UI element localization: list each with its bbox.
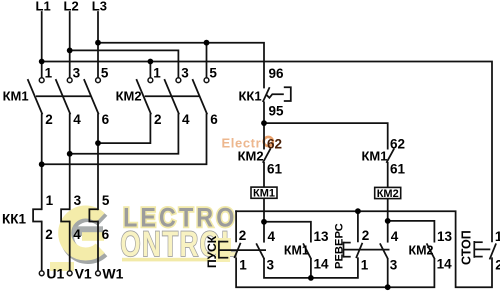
terminal KM1 pin3 — [67, 78, 72, 83]
svg-text:13: 13 — [437, 229, 453, 244]
watermark o-ring glyph — [264, 137, 273, 146]
svg-text:РЕВЕРС: РЕВЕРС — [334, 223, 346, 269]
wire start NC bottom to KM2 return rail — [236, 258, 434, 287]
wire KK1-95 to node and interlock feed — [263, 102, 265, 148]
node control rail at REVERS — [355, 208, 361, 214]
svg-text:W1: W1 — [102, 266, 123, 282]
svg-text:3: 3 — [267, 258, 275, 273]
wire KM2 pin5 stub — [206, 43, 208, 78]
node KM2 pin1 junction — [148, 59, 154, 65]
pushbutton REVERS NC contact 1-2 — [356, 243, 362, 258]
svg-text:14: 14 — [314, 257, 330, 272]
node KM1-4/KM2-4 junction — [67, 151, 73, 157]
svg-text:1: 1 — [361, 258, 369, 273]
terminal KM1 pin5 — [96, 78, 101, 83]
pushbutton REVERS cap and linkage — [344, 242, 390, 258]
wire L1 feed to stop button — [42, 62, 492, 242]
svg-text:КМ1: КМ1 — [3, 89, 29, 104]
aux contact KM1 NO 13-14 — [303, 243, 311, 259]
wire node A to KM1 hold contact — [264, 222, 311, 242]
wire L2 drop — [69, 12, 71, 78]
svg-text:96: 96 — [269, 66, 285, 81]
svg-text:КМ2: КМ2 — [238, 149, 264, 164]
wire L2 feed to KM2 pin3 — [70, 50, 179, 77]
svg-text:2: 2 — [239, 228, 247, 243]
pushbutton PUSK NC contact 1-2 — [234, 243, 240, 258]
svg-text:3: 3 — [390, 258, 398, 273]
terminal KM2 pin5 — [204, 78, 209, 83]
svg-text:4: 4 — [268, 229, 276, 244]
node L1 junction — [39, 59, 45, 65]
wire KM2-NC to KM1 coil — [263, 163, 265, 187]
svg-text:6: 6 — [102, 227, 110, 242]
pushbutton STOP cap and linkage — [474, 241, 490, 258]
svg-text:КМ2: КМ2 — [116, 89, 142, 104]
wire KM1-NC to KM2 coil — [387, 163, 389, 188]
terminal KM1 pin1 — [39, 78, 44, 83]
wire KM2-6 to KM1-2 — [42, 114, 207, 164]
wire L3 feed to KK1-96 — [98, 43, 264, 88]
svg-text:4: 4 — [182, 112, 190, 127]
svg-text:61: 61 — [267, 162, 283, 177]
node KK1-95 junction — [261, 120, 267, 126]
wire KM1 pole outputs down to KK1 — [41, 114, 43, 209]
node C KM2 coil bottom — [385, 218, 391, 224]
svg-text:2: 2 — [154, 112, 162, 127]
pushbutton PUSK cap and linkage — [219, 241, 266, 259]
aux contact KM1 NC 61-62 — [386, 148, 394, 162]
svg-text:2: 2 — [362, 228, 370, 243]
svg-text:V1: V1 — [75, 266, 92, 282]
wire start NC branch top — [235, 211, 237, 241]
terminal KM2 pin3 — [176, 78, 181, 83]
node KM1-6/KM2-2 junction — [95, 140, 101, 146]
wire heater outputs to motor terminals — [41, 222, 43, 272]
svg-text:1: 1 — [45, 66, 53, 81]
wire KM2 pin1 stub — [149, 62, 151, 78]
svg-text:КК1: КК1 — [2, 212, 26, 227]
contactor KM2 main contacts — [136, 79, 151, 114]
svg-text:4: 4 — [73, 227, 81, 242]
svg-text:4: 4 — [73, 112, 81, 127]
svg-text:ПУСК: ПУСК — [205, 235, 219, 268]
terminal W1 — [96, 271, 101, 276]
pushbutton PUSK NO contact 3-4 — [256, 243, 264, 259]
svg-text:13: 13 — [314, 229, 330, 244]
svg-text:5: 5 — [101, 66, 109, 81]
svg-text:6: 6 — [210, 112, 218, 127]
svg-text:14: 14 — [437, 257, 453, 272]
wire L1 drop — [41, 12, 43, 78]
svg-text:1: 1 — [239, 258, 247, 273]
svg-text:2: 2 — [495, 258, 500, 273]
node B rail at KM1-14 — [308, 275, 314, 281]
thermal relay KK1 heater elements — [33, 209, 42, 221]
wire KM2-2 to KM1-6 — [98, 114, 150, 143]
aux contact KM2 NC 61-62 — [263, 148, 271, 162]
svg-text:6: 6 — [102, 112, 110, 127]
svg-text:СТОП: СТОП — [459, 230, 473, 265]
svg-text:2: 2 — [45, 112, 53, 127]
svg-text:L1: L1 — [36, 0, 51, 14]
watermark yellow patch bottom left — [50, 262, 74, 271]
svg-text:КК1: КК1 — [239, 89, 262, 104]
svg-text:62: 62 — [267, 137, 282, 152]
svg-text:L2: L2 — [64, 0, 79, 14]
svg-text:L3: L3 — [92, 0, 107, 14]
svg-text:3: 3 — [74, 193, 82, 208]
coil KM2 — [375, 187, 401, 199]
svg-text:3: 3 — [73, 66, 81, 81]
svg-text:2: 2 — [45, 227, 53, 242]
node D rail at REVERS-3 — [385, 284, 391, 290]
svg-text:КМ2: КМ2 — [409, 244, 434, 258]
contactor KM1 main contacts — [28, 79, 43, 114]
pushbutton STOP NC contact 1-2 — [490, 243, 497, 259]
wire control rail from stop — [236, 211, 492, 287]
svg-text:3: 3 — [181, 66, 189, 81]
wire KM1 coil bottom to start contact — [263, 198, 265, 241]
terminal U1 — [39, 271, 44, 276]
pushbutton REVERS NO contact 3-4 — [380, 243, 388, 259]
node L2 junction — [67, 48, 73, 54]
svg-text:62: 62 — [390, 137, 405, 152]
watermark logo big C — [65, 212, 104, 257]
svg-text:1: 1 — [46, 193, 54, 208]
svg-text:95: 95 — [269, 104, 285, 119]
wire KM1-14 bottom stub — [310, 259, 312, 278]
wire node C to KM2 hold contact — [388, 221, 435, 242]
aux contact KM2 NO 13-14 — [427, 243, 435, 259]
node A KM1 coil bottom — [261, 219, 267, 225]
thermal relay KK1 NC contact with trip linkage — [263, 87, 270, 102]
coil KM1 — [251, 187, 277, 199]
watermark underline — [122, 258, 210, 262]
wire reverse NC branch top — [357, 211, 359, 241]
svg-text:КМ2: КМ2 — [377, 188, 399, 200]
svg-text:КМ1: КМ1 — [362, 149, 388, 164]
wire KM2 coil bottom to reverse contact — [387, 199, 389, 242]
svg-text:5: 5 — [209, 66, 217, 81]
wire reverse NO bottom stub — [387, 259, 389, 287]
wire KM2-4 to KM1-4 — [70, 114, 179, 153]
svg-text:4: 4 — [391, 229, 399, 244]
node KM1-2/KM2-6 junction — [39, 161, 45, 167]
wire KM1 return rail node B — [264, 258, 358, 278]
svg-text:КМ1: КМ1 — [284, 244, 309, 258]
node KM2 pin5 junction — [204, 40, 210, 46]
svg-text:1: 1 — [495, 229, 500, 244]
svg-text:61: 61 — [390, 162, 406, 177]
svg-text:5: 5 — [102, 193, 110, 208]
watermark yellow patch near start button — [214, 238, 231, 252]
svg-text:U1: U1 — [46, 266, 64, 282]
node L3 junction — [95, 40, 101, 46]
terminal V1 — [67, 271, 72, 276]
terminal KM2 pin1 — [148, 78, 153, 83]
svg-text:КМ1: КМ1 — [253, 188, 275, 200]
wire L3 drop — [97, 12, 99, 78]
svg-text:1: 1 — [153, 66, 161, 81]
